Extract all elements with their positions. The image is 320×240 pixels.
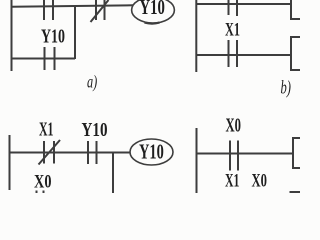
contact X1 (lower, diagram b) [229,40,238,67]
wire branch rung (diagram a) [12,58,76,60]
left rail (diagram d) [196,128,198,193]
svg-text:X1: X1 [225,20,240,40]
contact X0 (top, diagram a) [44,0,53,20]
left rail (diagram b) [195,0,197,72]
wire branch vertical (diagram c) [112,152,114,193]
wire rung 1 (diagram a) [12,5,134,7]
wire branch right vertical (diagram a) [74,6,76,59]
svg-text:Y10: Y10 [82,118,108,140]
left rail (diagram a) [11,0,13,71]
instruction box 2 (diagram b, cropped) [291,37,300,70]
svg-text:b): b) [281,78,291,98]
svg-text:X1: X1 [39,117,53,140]
wire rung (diagram d) [197,153,294,155]
contact NC (diagram a) [91,0,109,22]
contact X1 (top, diagram b) [229,0,238,16]
contact X1 NC (diagram c) [39,140,61,165]
svg-text:X0: X0 [226,114,242,137]
svg-text:Y10: Y10 [41,25,65,47]
contact X0 (diagram d) [230,141,238,171]
coil Y10 (diagram c) [130,139,173,165]
contact Y10 (branch, diagram a) [45,47,55,70]
left rail (diagram c) [9,135,11,190]
wire rung 2 (diagram b) [196,54,291,56]
contact Y10 (diagram c) [88,141,97,164]
instruction box 1 (diagram b, cropped) [291,0,300,19]
contact X0 bar tops (diagram c, cropped) [37,191,44,194]
svg-text:X1: X1 [225,171,240,191]
coil bottom smudge (diagram a) [145,23,160,24]
instruction box top edge (diagram d lower, cropped) [290,191,301,193]
wire rung 1 (diagram b) [196,3,291,5]
svg-text:X0: X0 [252,171,267,191]
instruction box (diagram d, cropped) [293,138,300,168]
svg-text:Y10: Y10 [140,0,165,19]
coil Y10 (diagram a) [132,0,175,23]
wire rung (diagram c) [10,152,131,154]
svg-text:Y10: Y10 [139,140,164,164]
svg-text:X0: X0 [34,171,51,192]
svg-text:a): a) [87,72,97,92]
